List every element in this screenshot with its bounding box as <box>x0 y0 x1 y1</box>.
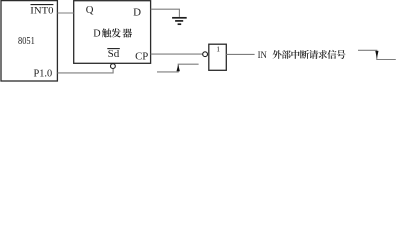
svg-text:CP: CP <box>135 51 148 62</box>
svg-text:IN: IN <box>258 50 267 61</box>
svg-text:D: D <box>93 29 100 40</box>
svg-text:Q: Q <box>86 4 94 16</box>
svg-text:1: 1 <box>216 45 220 54</box>
svg-text:Sd: Sd <box>108 49 120 60</box>
svg-text:P1.0: P1.0 <box>34 69 53 80</box>
svg-text:8051: 8051 <box>18 36 35 47</box>
svg-text:INT0: INT0 <box>30 7 53 17</box>
svg-text:D: D <box>133 7 141 18</box>
